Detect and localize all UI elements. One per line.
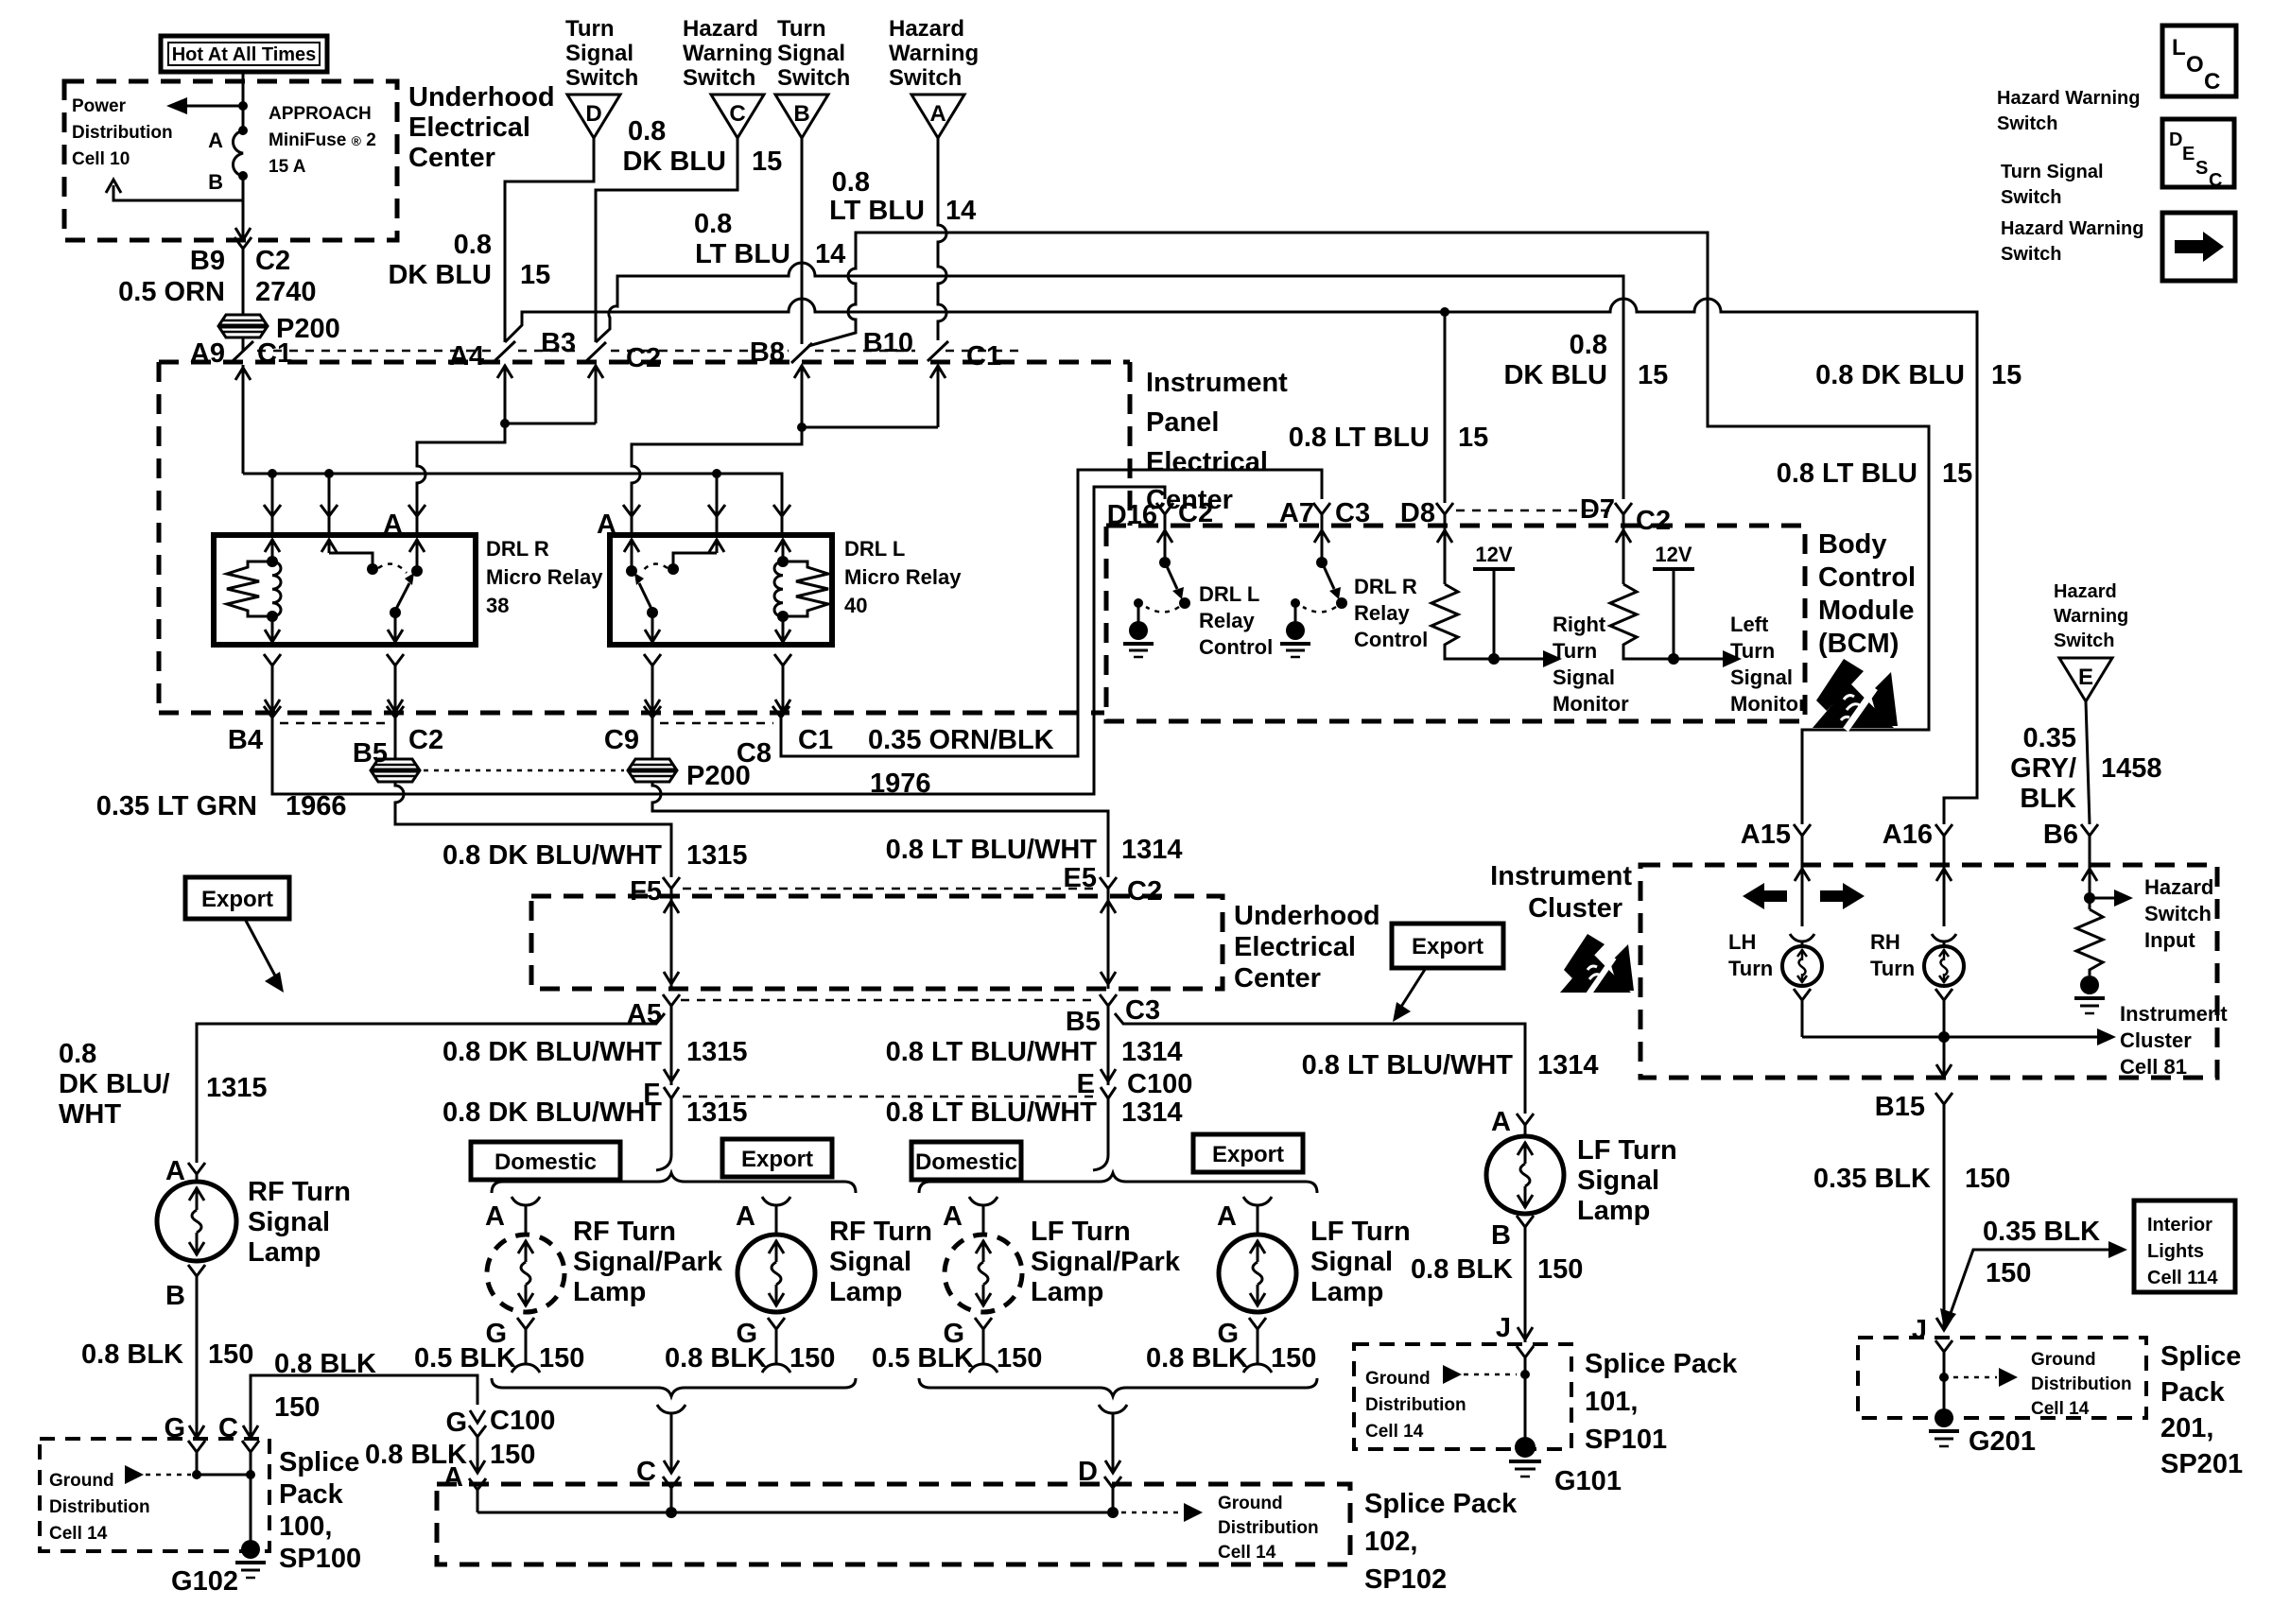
- arrow below B10: [930, 365, 946, 427]
- legend LOC box: [2162, 26, 2236, 96]
- wire fuse B to cell 10 return: [113, 176, 243, 200]
- wire to DRL R relay pin A: [417, 423, 505, 514]
- svg-text:0.35 ORN/BLK: 0.35 ORN/BLK: [868, 725, 1054, 755]
- svg-text:LT BLU: LT BLU: [695, 239, 790, 269]
- svg-text:SP102: SP102: [1364, 1564, 1447, 1595]
- Export box 2: [1193, 1134, 1303, 1172]
- wire brace to C (SP102): [636, 1405, 685, 1512]
- svg-text:0.8: 0.8: [1570, 330, 1607, 360]
- node SP101: [1520, 1370, 1530, 1379]
- svg-text:B: B: [208, 170, 223, 194]
- svg-text:1315: 1315: [686, 1037, 748, 1067]
- connector C9 at boundary: [604, 706, 661, 755]
- svg-text:Warning: Warning: [889, 41, 979, 66]
- connector A4: [449, 328, 576, 371]
- wire B8 branch (to A15): horizontal y=246: [808, 233, 1929, 824]
- node D SP102: [1107, 1507, 1119, 1518]
- svg-text:DRL L: DRL L: [1199, 582, 1259, 606]
- svg-text:Lamp: Lamp: [1310, 1277, 1383, 1307]
- svg-text:0.5 BLK: 0.5 BLK: [872, 1343, 974, 1373]
- svg-text:1315: 1315: [686, 840, 748, 871]
- svg-text:Hazard: Hazard: [683, 16, 758, 42]
- svg-text:C2: C2: [408, 725, 443, 755]
- Export callout box (left): [185, 877, 289, 993]
- svg-text:150: 150: [1537, 1254, 1583, 1285]
- ground G101: [1509, 1437, 1622, 1496]
- connector A16: [1883, 820, 1952, 865]
- svg-text:Right: Right: [1553, 613, 1606, 636]
- svg-text:0.8: 0.8: [694, 209, 732, 239]
- connector pins below relay L: [644, 654, 791, 713]
- svg-text:0.8 DK BLU/WHT: 0.8 DK BLU/WHT: [442, 840, 662, 871]
- svg-text:Cell 10: Cell 10: [72, 149, 130, 169]
- svg-text:Warning: Warning: [2054, 606, 2128, 627]
- Underhood Electrical Center 2 dashed box: [531, 896, 1223, 989]
- svg-text:APPROACH: APPROACH: [269, 104, 372, 124]
- svg-text:Distribution: Distribution: [49, 1497, 150, 1517]
- relay DRL L box 40: [610, 535, 832, 645]
- relay L pin arrows inside: [624, 539, 790, 569]
- svg-text:150: 150: [789, 1343, 835, 1373]
- svg-text:Signal: Signal: [829, 1247, 911, 1277]
- svg-text:A: A: [1491, 1107, 1511, 1137]
- triangle connector B: [775, 95, 828, 138]
- wire SP102 bus: [477, 1512, 1113, 1514]
- connector F5 at underhood EC: [630, 876, 680, 907]
- connector A (SP102): [443, 1460, 486, 1512]
- svg-text:B10: B10: [863, 328, 913, 358]
- node B8/B10 join: [797, 423, 807, 432]
- connector C Y (SP100): [242, 1441, 259, 1475]
- svg-text:E: E: [2078, 665, 2093, 690]
- connector A15: [1741, 820, 1811, 865]
- svg-text:0.8 BLK: 0.8 BLK: [1146, 1343, 1248, 1373]
- svg-text:Instrument: Instrument: [1490, 861, 1632, 891]
- node G102 net: [192, 1470, 201, 1479]
- wire C3 to LF lamp (right): [1115, 1013, 1525, 1114]
- svg-text:Interior: Interior: [2147, 1215, 2212, 1235]
- splice P200 (upper): [218, 314, 340, 344]
- node junction: [238, 101, 248, 111]
- svg-text:WHT: WHT: [59, 1099, 121, 1130]
- svg-text:150: 150: [274, 1392, 320, 1423]
- connector pins below relay R: [264, 654, 404, 713]
- wire 2740 0.5 ORN: [242, 263, 245, 314]
- svg-text:Switch: Switch: [889, 65, 962, 91]
- svg-text:DRL R: DRL R: [1354, 575, 1417, 598]
- lamp1 RF Turn Signal/Park Lamp (domestic, dashed): [485, 1197, 723, 1373]
- connector B5 C2 at boundary: [353, 706, 443, 769]
- svg-text:B3: B3: [541, 328, 576, 358]
- connector D8: [1400, 498, 1453, 528]
- svg-text:Warning: Warning: [683, 41, 772, 66]
- wire A to B10: 0.8 LT BLU 14: [938, 138, 946, 340]
- svg-text:O: O: [2186, 52, 2204, 78]
- svg-text:15: 15: [1638, 360, 1668, 390]
- relay R coil out arrow: [265, 616, 280, 645]
- relay R coil: [267, 556, 281, 622]
- svg-text:38: 38: [486, 594, 509, 617]
- DRL R relay control switch: [1280, 526, 1347, 657]
- triangle connector A: [911, 95, 964, 138]
- node bus to DRL R sw: [324, 469, 334, 478]
- Instrument Panel Electrical Center dashed box: [159, 362, 1130, 713]
- connector A7 C3: [1279, 498, 1370, 528]
- svg-text:0.8 LT BLU/WHT: 0.8 LT BLU/WHT: [886, 835, 1098, 865]
- svg-text:A15: A15: [1741, 820, 1791, 850]
- svg-text:Cell 114: Cell 114: [2147, 1268, 2218, 1288]
- relay R pin arrows inside: [265, 539, 425, 569]
- svg-text:Signal/Park: Signal/Park: [1031, 1247, 1181, 1277]
- node A4/C2 join: [500, 419, 510, 428]
- svg-text:0.8: 0.8: [59, 1039, 96, 1069]
- svg-text:B5: B5: [1066, 1007, 1101, 1037]
- svg-text:J: J: [1912, 1315, 1927, 1345]
- Body Control Module dashed box: [1106, 526, 1805, 721]
- svg-text:Signal: Signal: [777, 41, 845, 66]
- svg-text:S: S: [2195, 158, 2208, 179]
- svg-text:Splice: Splice: [279, 1447, 359, 1477]
- connector J Y (SP201): [1935, 1340, 1952, 1410]
- svg-text:Ground: Ground: [1365, 1369, 1431, 1389]
- wire bus drop pin relay L: [716, 474, 719, 514]
- lamp4 LF Turn Signal Lamp (export, solid): [1217, 1197, 1411, 1373]
- boundary dash A5-B5: [681, 999, 1099, 1002]
- svg-text:B: B: [1491, 1220, 1511, 1251]
- svg-text:A: A: [736, 1201, 755, 1232]
- svg-text:150: 150: [997, 1343, 1042, 1373]
- RH turn lamp: [1870, 865, 1964, 1078]
- Splice Pack 101 dashed box: [1354, 1344, 1571, 1449]
- svg-text:Monitor: Monitor: [1730, 692, 1807, 716]
- legend arrow box: [2162, 213, 2235, 281]
- svg-text:Control: Control: [1199, 635, 1273, 659]
- svg-text:15: 15: [520, 260, 550, 290]
- svg-text:Control: Control: [1354, 628, 1428, 651]
- svg-text:DK BLU/: DK BLU/: [59, 1069, 170, 1099]
- svg-text:G201: G201: [1969, 1426, 2036, 1457]
- triangle connector C: [711, 95, 764, 138]
- Domestic box 2: [911, 1142, 1021, 1180]
- RF Turn Signal Lamp (left): [157, 1156, 351, 1439]
- svg-text:102,: 102,: [1364, 1527, 1417, 1557]
- svg-text:B: B: [165, 1281, 185, 1311]
- svg-text:Cell 14: Cell 14: [1365, 1422, 1424, 1442]
- legend DESC box: [2162, 119, 2234, 191]
- arrow below A9 (fuse feed): [235, 365, 251, 474]
- svg-text:LF Turn: LF Turn: [1031, 1217, 1131, 1247]
- svg-text:C100: C100: [490, 1406, 555, 1436]
- svg-text:Micro Relay: Micro Relay: [844, 565, 962, 589]
- svg-text:Switch: Switch: [683, 65, 755, 91]
- svg-text:LF Turn: LF Turn: [1577, 1135, 1677, 1166]
- connector B10: [863, 328, 1001, 371]
- LF Turn Signal Lamp (right single): [1486, 1107, 1677, 1342]
- svg-text:Cell 81: Cell 81: [2120, 1055, 2187, 1079]
- connector E5 C2 at underhood EC: [1064, 863, 1163, 907]
- svg-text:0.35 LT GRN: 0.35 LT GRN: [96, 791, 257, 821]
- wire E to B6: 0.35 GRY/BLK 1458: [2086, 701, 2090, 824]
- svg-text:201,: 201,: [2160, 1413, 2213, 1443]
- svg-text:A16: A16: [1883, 820, 1933, 850]
- cluster LH arrow icon: [1743, 883, 1787, 909]
- wire 1976 C1 to A7: [781, 470, 1322, 756]
- wire E down with hook: [1093, 1106, 1108, 1170]
- svg-text:Underhood: Underhood: [1234, 901, 1380, 931]
- relay L coil resistor: [783, 561, 828, 616]
- svg-text:101,: 101,: [1585, 1387, 1638, 1417]
- svg-text:14: 14: [815, 239, 845, 269]
- connector J Y (SP101): [1517, 1346, 1534, 1441]
- svg-text:Switch: Switch: [2144, 902, 2212, 925]
- wire D to A4: 0.8 DK BLU 15: [505, 138, 594, 342]
- svg-text:D8: D8: [1400, 498, 1435, 528]
- svg-text:150: 150: [539, 1343, 584, 1373]
- ground G102: [171, 1540, 266, 1597]
- branch wire 0.8 BLK 150 C loop: [251, 1375, 477, 1439]
- svg-text:Cell 14: Cell 14: [1218, 1543, 1276, 1563]
- connector F at C100: [643, 1069, 679, 1109]
- svg-text:P200: P200: [686, 761, 751, 791]
- svg-text:Instrument: Instrument: [2120, 1002, 2228, 1026]
- svg-text:LT BLU: LT BLU: [829, 196, 925, 226]
- wire through UEC (E branch): [1101, 896, 1116, 989]
- svg-text:A: A: [485, 1201, 505, 1232]
- connector B15: [1875, 1092, 1952, 1329]
- svg-text:Signal: Signal: [1310, 1247, 1393, 1277]
- svg-text:1314: 1314: [1121, 1037, 1183, 1067]
- svg-text:1976: 1976: [870, 769, 931, 799]
- svg-text:Lamp: Lamp: [248, 1237, 321, 1268]
- svg-text:15: 15: [752, 147, 782, 177]
- wire to ground G102: [197, 1475, 251, 1541]
- svg-text:E: E: [1077, 1069, 1095, 1099]
- brace split right (A side): [919, 1173, 1317, 1193]
- svg-text:Electrical: Electrical: [1146, 447, 1268, 477]
- svg-text:14: 14: [946, 196, 976, 226]
- svg-text:Cell 14: Cell 14: [2031, 1399, 2090, 1419]
- svg-text:150: 150: [490, 1440, 535, 1470]
- wire A4 branch to BCM net (0.8 LT BLU 15 to A16): horizontal y=330: [505, 299, 1977, 824]
- svg-text:0.8 DK BLU/WHT: 0.8 DK BLU/WHT: [442, 1037, 662, 1067]
- svg-text:RF Turn: RF Turn: [248, 1177, 351, 1207]
- svg-text:Switch: Switch: [2001, 187, 2061, 208]
- svg-text:Turn: Turn: [1870, 957, 1915, 980]
- svg-text:SP201: SP201: [2160, 1449, 2243, 1479]
- wire D8 up to A16 net: [1444, 312, 1447, 503]
- lamp2 RF Turn Signal Lamp (export, solid): [736, 1197, 932, 1373]
- node SP201: [1939, 1373, 1949, 1382]
- connector J (SP101): [1496, 1313, 1533, 1343]
- svg-text:Power: Power: [72, 96, 127, 116]
- Power Distribution dashed box: [64, 81, 397, 240]
- svg-text:Hazard Warning: Hazard Warning: [1997, 88, 2141, 109]
- svg-text:SP100: SP100: [279, 1544, 361, 1574]
- svg-text:Domestic: Domestic: [915, 1149, 1017, 1175]
- wire C9 Y to splice P200: [651, 733, 654, 759]
- svg-text:0.8 LT BLU: 0.8 LT BLU: [1289, 423, 1430, 453]
- wire from Hot box to fuse: [242, 72, 245, 129]
- svg-text:Instrument: Instrument: [1146, 368, 1288, 398]
- svg-text:Switch: Switch: [1997, 113, 2057, 134]
- boundary dash D8-D7: [1456, 510, 1613, 512]
- ground distribution arrow (SP201): [1953, 1368, 2018, 1387]
- brace merge right (G side): [919, 1378, 1317, 1396]
- svg-text:G: G: [445, 1408, 467, 1438]
- connector G C100 (branch to SP102): [445, 1406, 555, 1473]
- svg-text:Ground: Ground: [2031, 1350, 2096, 1370]
- connector B5 C3: [1066, 994, 1160, 1085]
- svg-text:0.8: 0.8: [454, 230, 492, 260]
- svg-text:0.8 BLK: 0.8 BLK: [274, 1349, 376, 1379]
- relay DRL R box 38: [214, 535, 476, 645]
- svg-text:Distribution: Distribution: [2031, 1374, 2132, 1394]
- svg-text:DK BLU: DK BLU: [1503, 360, 1607, 390]
- fuse F2: [208, 126, 248, 194]
- wire B5 Y to splice: [394, 733, 397, 759]
- node bus to DRL L coil: [712, 469, 721, 478]
- svg-text:Panel: Panel: [1146, 407, 1219, 438]
- Splice Pack 102 dashed box: [437, 1484, 1350, 1564]
- svg-text:12V: 12V: [1475, 543, 1512, 566]
- connector pins above DRL R: [264, 505, 425, 535]
- svg-text:Control: Control: [1818, 562, 1916, 593]
- connector C1 C8 at boundary: [737, 706, 833, 769]
- svg-text:Cluster: Cluster: [1528, 893, 1622, 924]
- wire bus drop pins relay R: [272, 474, 329, 514]
- svg-text:Distribution: Distribution: [1365, 1395, 1466, 1415]
- svg-text:C: C: [729, 101, 745, 127]
- cluster RH arrow icon: [1820, 883, 1865, 909]
- 12V source (left turn): [1653, 543, 1694, 659]
- svg-text:Turn Signal: Turn Signal: [2001, 162, 2104, 182]
- svg-text:15: 15: [1942, 458, 1972, 489]
- svg-text:Electrical: Electrical: [1234, 932, 1356, 962]
- svg-text:DRL R: DRL R: [486, 537, 549, 561]
- wire brace to D (SP102): [1078, 1405, 1127, 1512]
- svg-text:Hazard: Hazard: [889, 16, 964, 42]
- svg-text:Center: Center: [1234, 963, 1321, 993]
- svg-text:12V: 12V: [1655, 543, 1692, 566]
- svg-text:Signal: Signal: [248, 1207, 330, 1237]
- svg-text:1458: 1458: [2101, 753, 2162, 784]
- connector G Y (SP100): [188, 1441, 205, 1475]
- ground distribution arrow (SP100): [125, 1465, 191, 1484]
- connector B4 at boundary: [228, 706, 281, 755]
- svg-text:B4: B4: [228, 725, 263, 755]
- svg-text:RF Turn: RF Turn: [573, 1217, 676, 1247]
- Export callout box (right): [1392, 924, 1503, 1022]
- svg-text:150: 150: [1986, 1258, 2031, 1288]
- svg-text:Switch: Switch: [2054, 631, 2114, 651]
- svg-text:Body: Body: [1818, 529, 1887, 560]
- svg-text:0.8 BLK: 0.8 BLK: [1411, 1254, 1513, 1285]
- svg-text:Turn: Turn: [1730, 639, 1775, 663]
- connector J (SP201): [1912, 1315, 1952, 1345]
- svg-text:Signal: Signal: [1577, 1166, 1659, 1196]
- dashed splice link: [424, 769, 624, 772]
- svg-text:Micro Relay: Micro Relay: [486, 565, 603, 589]
- splice P200 (lower): [628, 759, 751, 791]
- LH turn lamp: [1728, 865, 1822, 1037]
- svg-text:Turn: Turn: [1553, 639, 1597, 663]
- svg-text:B9: B9: [190, 246, 225, 276]
- svg-text:D7: D7: [1580, 494, 1615, 525]
- svg-text:C: C: [2209, 170, 2222, 191]
- splice SP B5/C2: [371, 759, 420, 782]
- svg-text:D: D: [2169, 130, 2182, 150]
- svg-text:Lamp: Lamp: [573, 1277, 646, 1307]
- wire fuse output down: [242, 200, 245, 240]
- wire to DRL L relay pin A: [632, 427, 802, 514]
- svg-text:0.8: 0.8: [628, 116, 666, 147]
- svg-text:Turn: Turn: [565, 16, 615, 42]
- svg-text:BLK: BLK: [2020, 784, 2076, 814]
- interior lights branch: [1940, 1241, 2127, 1329]
- svg-text:A4: A4: [449, 341, 484, 371]
- svg-text:Pack: Pack: [2160, 1377, 2226, 1408]
- svg-text:Splice: Splice: [2160, 1341, 2241, 1372]
- hazard input resistor: [2076, 909, 2103, 976]
- svg-text:Switch: Switch: [2001, 244, 2061, 265]
- wire 1315 splice B5C2 to F5: [395, 782, 671, 877]
- svg-text:C2: C2: [1636, 506, 1671, 536]
- wire 1314 splice P200 to E5: [652, 782, 1108, 877]
- svg-text:Export: Export: [1412, 934, 1484, 959]
- connector A5: [627, 994, 680, 1085]
- boundary dash F-E C100: [683, 1096, 1093, 1098]
- svg-text:Splice Pack: Splice Pack: [1585, 1349, 1738, 1379]
- svg-text:G102: G102: [171, 1566, 238, 1597]
- svg-text:Underhood: Underhood: [408, 82, 555, 112]
- svg-text:0.8 LT BLU: 0.8 LT BLU: [1777, 458, 1917, 489]
- wire through UEC (F branch): [664, 896, 679, 989]
- svg-text:DK BLU: DK BLU: [622, 147, 726, 177]
- hazard switch input branch: [2082, 865, 2133, 909]
- svg-text:C1: C1: [966, 341, 1001, 371]
- boundary dash C9-C1: [660, 722, 773, 725]
- Interior Lights Cell 114 box: [2134, 1201, 2235, 1292]
- svg-text:150: 150: [1965, 1164, 2010, 1194]
- svg-text:Ground: Ground: [49, 1471, 114, 1491]
- svg-text:0.8 LT BLU/WHT: 0.8 LT BLU/WHT: [886, 1037, 1098, 1067]
- svg-text:L: L: [2172, 35, 2186, 60]
- wire A4-C2 link: [505, 423, 596, 425]
- svg-text:C3: C3: [1125, 995, 1160, 1026]
- svg-text:Cluster: Cluster: [2120, 1028, 2192, 1052]
- svg-text:C3: C3: [1335, 498, 1370, 528]
- arrow below B8: [794, 365, 809, 427]
- svg-text:Export: Export: [1212, 1142, 1284, 1167]
- svg-text:Turn: Turn: [777, 16, 826, 42]
- svg-text:A: A: [943, 1201, 963, 1232]
- ESD symbol BCM: [1813, 659, 1898, 730]
- svg-text:MiniFuse ® 2: MiniFuse ® 2: [269, 130, 376, 150]
- arrow below C2: [588, 365, 603, 423]
- svg-text:15: 15: [1458, 423, 1488, 453]
- svg-text:A: A: [208, 129, 223, 152]
- svg-text:B15: B15: [1875, 1092, 1925, 1122]
- Export box 1: [722, 1139, 832, 1177]
- svg-text:15 A: 15 A: [269, 157, 306, 177]
- svg-text:Lamp: Lamp: [1031, 1277, 1103, 1307]
- node C SP102: [666, 1507, 677, 1518]
- connector B6: [2043, 820, 2098, 865]
- wire C2 branch (0.8 LT BLU to D7): horizontal y=292: [596, 263, 1623, 499]
- wire splice to A9: [242, 337, 245, 352]
- svg-text:E: E: [2182, 144, 2195, 164]
- arrow at cluster bottom: [1936, 1064, 1952, 1077]
